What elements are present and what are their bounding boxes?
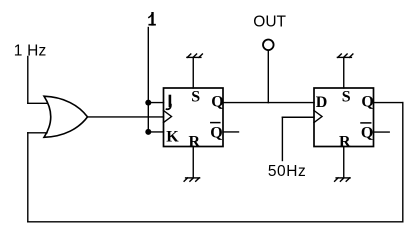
svg-text:D: D [316, 94, 328, 111]
svg-text:Q: Q [210, 124, 222, 141]
JK flip-flop U2 box [164, 88, 224, 147]
U2 Qbar overline [211, 122, 220, 124]
wire 50Hz clock vertical [281, 117, 283, 160]
wire U3 R stem [343, 147, 345, 178]
wire to U2 K [148, 131, 163, 133]
svg-text:R: R [189, 133, 201, 150]
wire U2 R stem [192, 147, 194, 178]
svg-text:K: K [166, 128, 179, 145]
svg-text:S: S [191, 89, 200, 106]
svg-text:OUT: OUT [253, 13, 286, 30]
U2 pin label J [167, 96, 171, 109]
or-gate G1 [44, 96, 88, 137]
svg-text:Q: Q [361, 94, 373, 111]
wire feedback bottom rail [28, 221, 403, 223]
svg-text:50Hz: 50Hz [268, 163, 306, 180]
wire feedback right vertical [402, 103, 404, 222]
label constant 1 [149, 13, 155, 25]
wire 1Hz input vertical [27, 57, 29, 104]
ground below U3 R [335, 178, 351, 181]
U3 Qbar overline [361, 122, 371, 124]
wire feedback to OR bottom input [28, 132, 47, 134]
wire U2 Q to U3 D [223, 102, 314, 104]
wire to U2 J [148, 102, 163, 104]
wire U3 Qbar stub [374, 131, 390, 133]
wire U3 S stem [343, 58, 345, 89]
junction dot at J branch [145, 100, 151, 106]
wire 50Hz clock horizontal [282, 116, 314, 118]
ground above U2 S [187, 54, 203, 57]
wire OUT stem [267, 50, 269, 102]
ground above U3 S [337, 54, 353, 57]
D flip-flop U3 box [314, 88, 374, 147]
wire constant-1 vertical [147, 28, 149, 132]
wire 1Hz to OR top input [28, 102, 47, 104]
wire U2 Qbar stub [223, 131, 239, 133]
svg-text:R: R [339, 133, 351, 150]
svg-text:S: S [342, 89, 351, 106]
junction dot at K branch [145, 129, 151, 135]
wire U2 S stem [192, 58, 194, 89]
U3 clock triangle [314, 111, 322, 123]
U2 clock triangle [164, 111, 172, 123]
ground below U2 R [184, 178, 200, 181]
wire U3 Q to feedback [374, 102, 403, 104]
svg-text:Q: Q [361, 124, 373, 141]
svg-text:Q: Q [211, 94, 223, 111]
svg-text:1 Hz: 1 Hz [14, 43, 47, 60]
wire OR output to U2 clock [88, 116, 164, 118]
OUT terminal circle [263, 40, 274, 51]
wire feedback left vertical [27, 133, 29, 222]
